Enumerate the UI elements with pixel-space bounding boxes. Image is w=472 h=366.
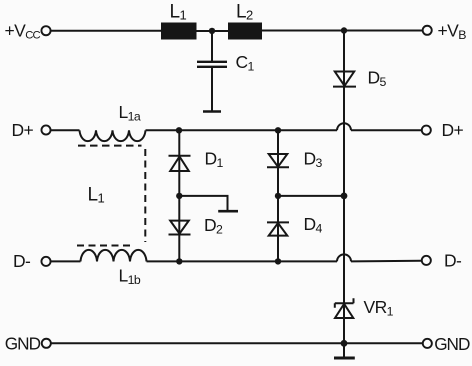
wire D- rail hop over D5 branch	[337, 254, 351, 261]
ground (middle)	[218, 210, 238, 213]
terminal GND left	[42, 339, 51, 348]
svg-text:+VB: +VB	[438, 21, 467, 42]
terminal GND right	[423, 339, 432, 348]
svg-text:D+: D+	[442, 120, 464, 140]
wire D+ to L1a	[51, 129, 80, 131]
node D+ / D1	[176, 127, 182, 133]
wire C1 bottom lead	[211, 67, 213, 111]
wire L1b to D- rail	[147, 260, 338, 262]
wire D+ rail hop over D5 branch	[337, 123, 351, 130]
svg-text:L1: L1	[170, 2, 187, 23]
wire D- to L1b	[51, 260, 81, 262]
svg-text:L1b: L1b	[119, 266, 141, 287]
svg-text:D5: D5	[368, 68, 387, 89]
terminal D+ left	[41, 125, 50, 134]
svg-text:D2: D2	[204, 215, 223, 236]
terminal +VB	[423, 26, 432, 35]
svg-text:GND: GND	[5, 333, 41, 353]
svg-text:GND: GND	[434, 334, 470, 354]
wire mid-left to ground stub	[179, 196, 227, 210]
wire D- rail to right terminal	[351, 260, 421, 263]
svg-text:L1a: L1a	[119, 102, 141, 123]
wire L1a to D+ rail	[146, 129, 338, 131]
inductor L1a (coil)	[80, 130, 146, 141]
coupling dashed line above L1b	[77, 245, 133, 247]
node mid left (ground tap)	[176, 193, 182, 199]
diode D1	[169, 156, 191, 171]
node D- / D4	[275, 258, 281, 264]
diode D2	[169, 221, 191, 235]
diode D3	[267, 154, 289, 167]
coupling dashed line under L1a	[78, 145, 142, 147]
wire D+ rail to right terminal	[351, 129, 421, 131]
diode D5	[333, 72, 356, 87]
node D+ / D3	[275, 127, 281, 133]
inductor L1 (filled block)	[161, 23, 197, 40]
svg-text:D+: D+	[12, 120, 34, 140]
svg-text:C1: C1	[236, 52, 255, 73]
ground (bottom)	[334, 357, 355, 360]
node junction top right (D5 tap)	[341, 27, 347, 33]
terminal D- right	[422, 256, 431, 265]
svg-text:D-: D-	[444, 251, 462, 271]
svg-text:D1: D1	[205, 149, 224, 170]
svg-text:D4: D4	[304, 214, 323, 235]
coupling dashed line vertical	[144, 149, 146, 242]
svg-text:L2: L2	[236, 2, 253, 23]
ground (C1)	[203, 110, 221, 113]
svg-text:L1: L1	[88, 185, 105, 206]
wire GND symbol stub	[343, 343, 345, 357]
svg-text:+VCC: +VCC	[5, 21, 41, 42]
zener VR1	[335, 298, 354, 318]
node junction top (C1 tap)	[209, 28, 215, 34]
node GND / VR1	[341, 340, 348, 347]
svg-text:D-: D-	[13, 251, 31, 271]
node D5 branch / mid wire	[341, 193, 348, 200]
svg-text:VR1: VR1	[364, 297, 394, 318]
wire L2 to +VB	[262, 30, 422, 32]
inductor L2 (filled block)	[228, 23, 262, 40]
inductor L1b (coil)	[81, 250, 147, 262]
svg-text:D3: D3	[304, 149, 323, 170]
node D- / D2	[176, 258, 182, 264]
terminal D+ right	[422, 126, 431, 135]
wire top rail left	[51, 30, 161, 32]
wire right branch vertical	[277, 130, 279, 261]
wire D5 branch top	[343, 31, 345, 196]
wire C1 top lead	[211, 31, 213, 61]
terminal +Vcc	[41, 26, 50, 35]
diode D4	[267, 222, 289, 235]
terminal D- left	[41, 257, 50, 266]
wire D5 branch to GND rail	[343, 196, 345, 343]
wire L1 to L2	[197, 30, 229, 32]
wire left branch vertical	[178, 130, 180, 261]
wire GND rail	[51, 342, 422, 344]
capacitor C1	[197, 62, 227, 67]
node mid right	[275, 193, 281, 199]
wire mid-right to D5 branch	[278, 195, 344, 197]
